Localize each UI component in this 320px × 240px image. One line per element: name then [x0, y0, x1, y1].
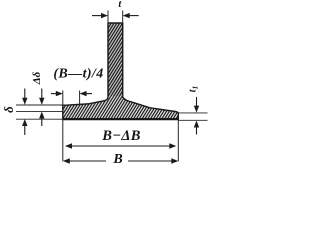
left extension / box side vertical	[62, 91, 64, 162]
tee-section profile (web + flange, hatched)	[63, 23, 179, 119]
extension of flange bottom to the left	[16, 118, 63, 120]
svg-text:(B—t)/4: (B—t)/4	[53, 67, 103, 82]
extension line A (original flange top, left)	[16, 104, 63, 106]
web edge ticks above	[107, 11, 109, 24]
svg-text:B: B	[112, 152, 122, 167]
dimension (B-t)/4 : left arrow	[51, 93, 57, 95]
dimension t : left arrow	[22, 13, 199, 164]
flange bottom edge (thick)	[62, 118, 179, 120]
svg-text:δ: δ	[1, 106, 16, 113]
quarter-point tick	[79, 91, 81, 104]
dimension B line with outward arrows	[66, 160, 106, 162]
dimension t1 : up arrow	[194, 121, 199, 128]
extension of flange top-right corner to the right	[178, 112, 207, 114]
web extra shading (dense scan tone)	[109, 23, 123, 96]
dimension delta-delta : down arrow	[41, 89, 43, 99]
dimension delta-delta : up arrow	[39, 112, 44, 119]
right box side vertical	[177, 119, 179, 161]
svg-text:B−ΔB: B−ΔB	[101, 128, 140, 144]
dimension B-dB line with outward arrows	[68, 145, 173, 147]
dimension t1 : down arrow	[196, 97, 198, 107]
dimension delta : up arrow	[22, 119, 27, 126]
svg-text:Δδ: Δδ	[31, 71, 43, 85]
dimension t : right arrow	[129, 15, 139, 17]
extension line B (worn flange top, left)	[16, 111, 63, 113]
dimension (B-t)/4 : right arrow	[86, 93, 92, 95]
dimension delta : down arrow	[24, 89, 26, 99]
extension of flange bottom to the right	[178, 119, 207, 121]
